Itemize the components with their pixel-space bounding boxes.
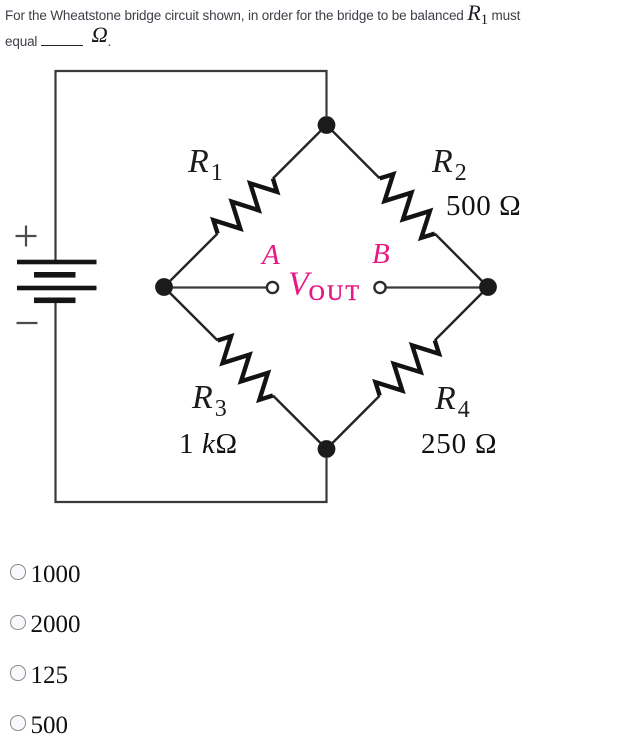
resistor R1 zigzag bbox=[213, 179, 277, 234]
answer option 125 bbox=[10, 659, 68, 687]
svg-text:A: A bbox=[260, 239, 280, 271]
svg-text:1 kΩ: 1 kΩ bbox=[179, 428, 238, 460]
terminal A open circle bbox=[267, 282, 278, 293]
node top junction dot bbox=[318, 116, 336, 134]
svg-text:R2: R2 bbox=[431, 143, 467, 186]
resistor R1 leads bbox=[164, 125, 327, 287]
answer option 500 bbox=[10, 709, 68, 737]
svg-text:R3: R3 bbox=[191, 379, 227, 422]
terminal B open circle bbox=[374, 282, 385, 293]
svg-text:R1: R1 bbox=[187, 143, 223, 186]
resistor R3 leads bbox=[164, 287, 327, 449]
question text bbox=[5, 2, 630, 53]
wire: bottom loop from battery - to bottom node bbox=[56, 302, 327, 502]
resistor R4 zigzag bbox=[376, 340, 440, 395]
resistor R2 zigzag bbox=[380, 174, 435, 238]
svg-text:500 Ω: 500 Ω bbox=[446, 190, 521, 222]
wire: top loop from battery + to top node bbox=[56, 71, 327, 260]
svg-text:250 Ω: 250 Ω bbox=[421, 428, 497, 460]
battery - terminal label bbox=[17, 322, 38, 324]
node left junction dot bbox=[155, 278, 173, 296]
battery B1 plates bbox=[17, 260, 97, 303]
answer option 1000 bbox=[10, 558, 81, 586]
circuit schematic bbox=[0, 0, 635, 560]
resistor R2 leads bbox=[327, 125, 489, 287]
node right junction dot bbox=[479, 278, 497, 296]
svg-text:VOUT: VOUT bbox=[288, 266, 362, 306]
wire: terminal B to right node bbox=[387, 286, 489, 288]
resistor R4 leads bbox=[327, 287, 489, 449]
wire: left node to terminal A bbox=[164, 286, 266, 288]
svg-text:B: B bbox=[372, 238, 390, 270]
answer option 2000 bbox=[10, 608, 81, 636]
battery + terminal label bbox=[16, 226, 37, 247]
resistor R3 zigzag bbox=[218, 336, 273, 400]
node bottom junction dot bbox=[318, 440, 336, 458]
svg-text:R4: R4 bbox=[434, 380, 470, 423]
